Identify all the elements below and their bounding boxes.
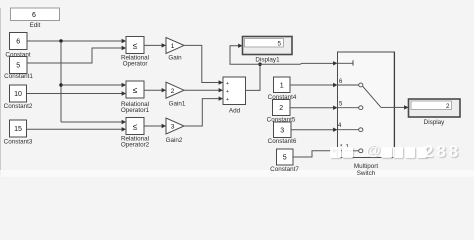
- svg-text:Display1: Display1: [255, 56, 280, 63]
- wire Constant7 to Multiport Switch in5: [293, 149, 338, 157]
- wire Add output up to junction: [246, 64, 261, 90]
- svg-text:+: +: [226, 81, 229, 87]
- svg-text:2: 2: [279, 105, 283, 112]
- edit box E1: [11, 8, 60, 29]
- block Constant: [5, 33, 30, 59]
- svg-text:Operator: Operator: [123, 60, 148, 67]
- block Relational Operator: [121, 37, 149, 68]
- svg-text:6: 6: [32, 12, 36, 19]
- wire branch to Relational Operator2 in1: [61, 120, 126, 124]
- wire Gain2 to Add in3: [184, 96, 223, 126]
- svg-text:Switch: Switch: [357, 170, 376, 177]
- block Constant4: [268, 77, 297, 101]
- block Display: [409, 99, 461, 126]
- svg-text:Constant6: Constant6: [268, 138, 297, 145]
- svg-text:1: 1: [171, 43, 175, 50]
- block Relational Operator1: [121, 81, 150, 114]
- svg-text:5: 5: [283, 155, 287, 162]
- block Constant5: [267, 100, 296, 124]
- wire Multiport Switch to Display: [395, 105, 409, 109]
- block Constant7: [270, 149, 299, 173]
- svg-text:Operator1: Operator1: [121, 107, 150, 114]
- block Constant3: [4, 120, 33, 146]
- svg-text:Edit: Edit: [30, 22, 41, 29]
- block Add: [223, 77, 246, 114]
- svg-text:Constant1: Constant1: [4, 73, 33, 80]
- junction dot B: [59, 83, 62, 86]
- svg-text:3: 3: [171, 124, 175, 131]
- wire Gain1 to Add in2: [184, 88, 223, 92]
- svg-text:6: 6: [16, 39, 20, 46]
- wire Constant5 to Multiport Switch in3: [290, 106, 338, 110]
- wire Relational Operator to Gain: [144, 43, 166, 47]
- svg-text:Gain: Gain: [168, 54, 182, 61]
- svg-text:Constant7: Constant7: [270, 166, 299, 173]
- svg-text:≤: ≤: [133, 85, 138, 95]
- svg-text:Display: Display: [424, 119, 445, 126]
- block Multiport Switch: [338, 52, 395, 177]
- junction dot C: [258, 62, 261, 65]
- block Constant1: [4, 57, 33, 81]
- block Gain: [166, 38, 184, 62]
- svg-text:1: 1: [280, 82, 284, 89]
- wire Gain to Add in1: [184, 45, 223, 84]
- svg-text:+: +: [226, 89, 229, 95]
- svg-text:3: 3: [280, 127, 284, 134]
- wire Relational Operator2 to Gain2: [144, 124, 166, 128]
- left edge artifact: [0, 8, 1, 177]
- wire Constant to Relational Operator in1: [27, 39, 126, 43]
- wire Constant1 to Relational Operator in2: [27, 46, 126, 63]
- block Display1: [243, 37, 293, 64]
- block Gain2: [166, 118, 184, 144]
- svg-text:5: 5: [16, 63, 20, 70]
- svg-text:5: 5: [277, 40, 281, 47]
- watermark 知乎 @龙行天下288: [328, 145, 474, 161]
- canvas background: [0, 0, 474, 177]
- wire Constant4 to Multiport Switch in2: [290, 83, 338, 87]
- block Constant6: [268, 122, 297, 145]
- block Constant2: [4, 85, 33, 110]
- wire Constant3 to Relational Operator2 in2: [27, 127, 127, 131]
- svg-text:≤: ≤: [133, 121, 138, 131]
- svg-text:2: 2: [446, 103, 450, 110]
- svg-text:≤: ≤: [133, 40, 138, 50]
- junction dot A: [59, 39, 62, 42]
- svg-text:Gain1: Gain1: [169, 101, 186, 108]
- bottom light strip: [0, 170, 474, 177]
- svg-text:Add: Add: [229, 107, 241, 114]
- svg-text:15: 15: [14, 126, 22, 133]
- svg-text:Constant2: Constant2: [4, 103, 33, 110]
- block Gain1: [166, 82, 186, 108]
- svg-text:Operator2: Operator2: [121, 141, 150, 148]
- svg-text:2: 2: [171, 88, 175, 95]
- wire junction to Display1: [230, 44, 260, 65]
- svg-text:Gain2: Gain2: [166, 137, 183, 144]
- wire Constant6 to Multiport Switch in4: [291, 128, 338, 132]
- wire junction to Multiport Switch control: [260, 61, 338, 65]
- wire Relational Operator1 to Gain1: [144, 88, 166, 92]
- svg-text:+: +: [226, 97, 229, 103]
- wire branch down from Constant: [60, 41, 62, 122]
- block Relational Operator2: [121, 118, 150, 149]
- svg-text:10: 10: [14, 91, 22, 98]
- svg-text:Constant3: Constant3: [4, 139, 33, 146]
- wire Constant2 to Relational Operator1 in2: [27, 91, 127, 95]
- wire branch to Relational Operator1 in1: [61, 83, 126, 87]
